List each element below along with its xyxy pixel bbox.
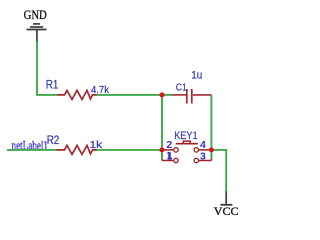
resistor R1 bbox=[57, 90, 96, 99]
GND label bbox=[24, 8, 47, 22]
svg-text:R2: R2 bbox=[47, 133, 60, 147]
pin number 4 bbox=[200, 139, 206, 151]
ground symbol bbox=[27, 24, 47, 42]
push button KEY1 bbox=[162, 141, 211, 163]
resistor R2 bbox=[57, 145, 97, 154]
label C1 bbox=[176, 83, 187, 94]
wire stub KEY1 left pins tie bbox=[161, 150, 163, 159]
svg-text:C1: C1 bbox=[176, 83, 187, 94]
VCC label bbox=[214, 205, 239, 218]
junction KEY1 right node bbox=[209, 147, 214, 152]
svg-text:R1: R1 bbox=[46, 77, 59, 91]
svg-text:1u: 1u bbox=[191, 69, 202, 81]
svg-text:4: 4 bbox=[200, 139, 206, 151]
svg-text:3: 3 bbox=[200, 151, 206, 163]
pin number 2 bbox=[166, 139, 172, 151]
wire node A to C1 bbox=[162, 94, 172, 96]
capacitor C1 bbox=[172, 89, 211, 104]
svg-text:KEY1: KEY1 bbox=[174, 130, 197, 142]
junction node A bbox=[160, 92, 165, 97]
wire R1 to node A bbox=[97, 94, 163, 96]
wire netLabel1 to R2 bbox=[7, 149, 58, 151]
wire node A down to KEY1 left node bbox=[161, 95, 163, 150]
value 4.7k bbox=[91, 84, 110, 96]
wire R2 to KEY1 left node bbox=[97, 149, 163, 151]
wire C1 down to KEY1 right node bbox=[210, 95, 212, 150]
junction KEY1 left node bbox=[160, 147, 165, 152]
label R1 bbox=[46, 77, 59, 91]
value 1u bbox=[191, 69, 202, 81]
label KEY1 bbox=[174, 130, 197, 142]
label R2 bbox=[47, 133, 60, 147]
svg-text:2: 2 bbox=[166, 139, 172, 151]
net label netLabel1 bbox=[12, 139, 49, 153]
svg-text:VCC: VCC bbox=[214, 205, 239, 218]
power symbol VCC bbox=[220, 191, 232, 204]
wire KEY1 to VCC bbox=[211, 150, 226, 192]
value 1k bbox=[90, 139, 103, 151]
svg-text:GND: GND bbox=[24, 8, 47, 22]
wire GND to R1 bbox=[37, 42, 58, 95]
wire stub KEY1 right pins tie bbox=[210, 150, 212, 159]
pin number 1 bbox=[167, 152, 172, 159]
pin number 3 bbox=[200, 151, 206, 163]
